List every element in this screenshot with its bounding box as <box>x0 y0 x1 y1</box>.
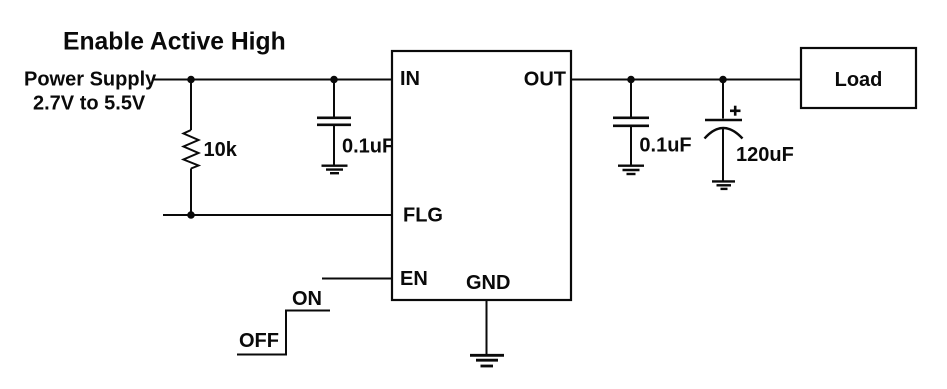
resistor R1 <box>184 80 199 216</box>
wire: OUT to Load <box>571 79 801 81</box>
wire: EN stub <box>322 278 392 280</box>
svg-text:OUT: OUT <box>524 69 566 91</box>
capacitor C3 (120uF polarized) <box>705 80 743 181</box>
svg-text:GND: GND <box>466 272 510 294</box>
svg-text:0.1uF: 0.1uF <box>639 135 691 157</box>
svg-text:EN: EN <box>400 268 428 290</box>
wire: GND pin down <box>486 300 488 354</box>
svg-text:2.7V to 5.5V: 2.7V to 5.5V <box>33 92 146 114</box>
svg-text:ON: ON <box>292 288 322 310</box>
wire: supply to IN pin <box>152 79 392 81</box>
svg-text:Load: Load <box>835 69 883 91</box>
junction: R1 / FLG <box>187 211 195 219</box>
load box <box>801 48 916 108</box>
svg-text:Enable Active High: Enable Active High <box>63 29 286 56</box>
IC U1 body <box>392 51 571 300</box>
svg-text:10k: 10k <box>204 139 238 161</box>
polarity + sign for C3 <box>730 106 741 116</box>
svg-text:IN: IN <box>400 68 420 90</box>
waveform: EN on/off step <box>237 311 330 355</box>
svg-text:FLG: FLG <box>403 205 443 227</box>
ground: C1 <box>322 166 348 174</box>
svg-text:0.1uF: 0.1uF <box>342 136 394 158</box>
capacitor C1 <box>317 80 351 165</box>
junction: supply / R1 <box>187 76 195 84</box>
svg-text:Power Supply: Power Supply <box>24 69 157 91</box>
wire: FLG to R1 bottom <box>163 214 392 216</box>
junction: supply / C1 <box>330 76 338 84</box>
junction: OUT / C3 <box>719 76 727 84</box>
junction: OUT / C2 <box>627 76 635 84</box>
ground: C3 <box>712 181 735 189</box>
svg-text:120uF: 120uF <box>736 144 794 166</box>
svg-text:OFF: OFF <box>239 330 279 352</box>
ground: GND pin <box>470 355 504 366</box>
capacitor C2 <box>613 80 649 165</box>
ground: C2 <box>618 166 644 174</box>
